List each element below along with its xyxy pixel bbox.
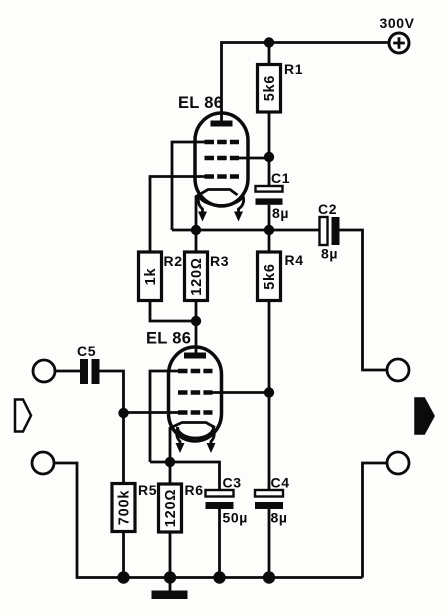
svg-text:50µ: 50µ [223, 510, 248, 526]
wire C3 bottom lead [218, 509, 221, 578]
wire input to C5 [55, 370, 80, 373]
U2 heater lead arrow left [177, 427, 180, 444]
resistor R4 5k6 [258, 252, 304, 301]
input terminal lower [32, 452, 54, 474]
U1 heater arc [199, 194, 243, 206]
node C1/R4/C2 junction [264, 225, 274, 235]
resistor R5 700k [112, 482, 157, 532]
node R2/R3/anode U2 junction [191, 316, 201, 326]
wire C2 output to upper output terminal [340, 230, 388, 370]
wire R4 bottom lead to g2 node of U2 [268, 301, 271, 393]
capacitor C5 [77, 343, 100, 384]
wire cathode bus of U1 (y=230) [172, 229, 320, 232]
U1 grid g1 [205, 174, 240, 179]
U2 heater lead arrow right [211, 427, 214, 444]
svg-text:C2: C2 [318, 201, 337, 217]
svg-text:700k: 700k [117, 490, 133, 526]
svg-text:R3: R3 [210, 253, 229, 269]
wire R1 bottom lead [268, 112, 271, 157]
wire lower input to ground rail [54, 463, 363, 578]
svg-text:120Ω: 120Ω [189, 257, 205, 296]
U1 anode [211, 121, 233, 127]
svg-text:C1: C1 [271, 170, 290, 186]
wire node to g1 of U2 [124, 411, 179, 414]
node rail/C3 [213, 571, 225, 583]
U1 cathode [196, 190, 238, 231]
U2 anode [184, 353, 206, 359]
U2 envelope [169, 347, 222, 441]
capacitor C1 8u [256, 170, 291, 221]
wire to anode of U2 [195, 321, 198, 353]
U2 heater arc [178, 427, 214, 438]
wire C5 to g1 node of U2 and down to R5 [100, 371, 124, 484]
node supply/R1 junction [264, 37, 274, 47]
wire g3 of U2 down to cathode bus [150, 371, 178, 462]
input arrow symbol [15, 400, 31, 432]
svg-text:C3: C3 [223, 475, 242, 491]
U1 grid g3 [205, 140, 240, 145]
resistor R3 120 Ohm [185, 252, 230, 301]
node rail/R5 [117, 571, 129, 583]
wire R5 bottom lead [122, 532, 125, 578]
wire C4 bottom lead [268, 509, 271, 578]
wire R4 top lead [268, 230, 271, 252]
svg-text:EL 86: EL 86 [178, 94, 223, 112]
wire g1 of U1 down to R2 [150, 177, 205, 253]
wire g2 of U1 to node [238, 157, 269, 160]
svg-text:120Ω: 120Ω [163, 489, 179, 528]
svg-text:8µ: 8µ [271, 510, 288, 526]
svg-text:R6: R6 [185, 482, 204, 498]
svg-text:8µ: 8µ [272, 205, 289, 221]
wire R1 top lead [268, 43, 271, 65]
node cathode/R6 junction [165, 457, 175, 467]
tube U2 EL 86 (lower) [146, 330, 222, 463]
wire node down to C4 [268, 393, 271, 491]
svg-text:1k: 1k [143, 268, 159, 286]
svg-text:5k6: 5k6 [262, 263, 278, 290]
ground [152, 578, 188, 600]
U2 cathode [170, 423, 215, 463]
resistor R2 1k [139, 252, 183, 301]
node R1/C1/g2 junction [264, 152, 274, 162]
U2 grid g3 [178, 369, 213, 374]
svg-text:300V: 300V [380, 15, 415, 31]
output arrow symbol [416, 399, 434, 434]
svg-text:EL 86: EL 86 [146, 330, 191, 348]
input terminal upper [33, 360, 55, 382]
U1 envelope [195, 113, 248, 206]
wire cathode bus of U2 (y=462) to C3 [150, 462, 220, 490]
svg-text:C4: C4 [271, 475, 290, 491]
resistor R6 120 Ohm [159, 482, 204, 532]
U1 heater lead arrow left [198, 194, 202, 213]
node R4/g2 U2/C4 junction [264, 387, 274, 397]
svg-text:8µ: 8µ [321, 246, 338, 262]
U2 grid g2 [178, 390, 213, 395]
U1 heater lead arrow right [239, 194, 244, 213]
svg-text:R5: R5 [138, 482, 157, 498]
wire lower output terminal to rail [363, 463, 388, 578]
svg-text:R1: R1 [284, 61, 303, 77]
node rail/R6/ground [164, 571, 176, 583]
node cathode/R3 junction [191, 225, 201, 235]
wire C1 top lead [268, 157, 271, 186]
wire R3 top lead [195, 230, 198, 252]
wire top rail from anode of U1 to 300V terminal [222, 43, 390, 124]
output terminal upper [387, 359, 409, 381]
svg-text:R4: R4 [285, 252, 304, 268]
wire R6 top lead [169, 462, 172, 484]
supply terminal +300V [380, 15, 415, 53]
capacitor C2 8u [318, 201, 340, 262]
wire R2 bottom to R3 bottom [150, 301, 196, 322]
capacitor C3 50u [206, 475, 248, 526]
wire R6 bottom lead [169, 532, 172, 578]
node C5/g1/R5 junction [118, 408, 128, 418]
resistor R1 5k6 [258, 61, 304, 112]
node rail/C4 [263, 571, 275, 583]
svg-text:5k6: 5k6 [262, 75, 278, 102]
wire C1 bottom lead [268, 205, 271, 230]
tube U1 EL 86 (upper) [178, 94, 248, 230]
U1 grid g2 [205, 156, 240, 161]
svg-text:C5: C5 [77, 343, 96, 359]
wire R3 bottom lead [195, 301, 198, 322]
wire g2 of U2 to node [212, 391, 269, 394]
svg-text:R2: R2 [164, 253, 183, 269]
capacitor C4 8u [255, 475, 290, 526]
wire g3 of U1 to cathode bus [172, 142, 205, 230]
output terminal lower [387, 452, 409, 474]
U2 grid g1 [178, 410, 213, 415]
